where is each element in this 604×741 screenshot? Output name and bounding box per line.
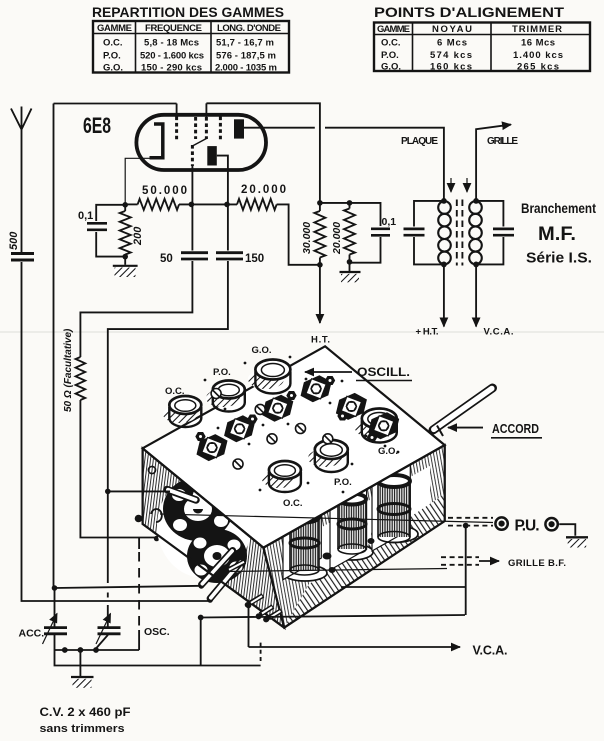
svg-text:TRIMMER: TRIMMER: [512, 24, 562, 35]
svg-text:P.U.: P.U.: [515, 518, 540, 535]
svg-text:200: 200: [132, 226, 144, 246]
svg-text:150 - 290 kcs: 150 - 290 kcs: [141, 63, 202, 74]
svg-text:51,7 - 16,7 m: 51,7 - 16,7 m: [216, 38, 274, 49]
svg-text:1.400 kcs: 1.400 kcs: [513, 50, 563, 61]
svg-text:16 Mcs: 16 Mcs: [521, 38, 555, 49]
svg-text:OSCILL.: OSCILL.: [357, 365, 410, 379]
svg-text:O.C.: O.C.: [381, 38, 401, 49]
svg-text:GAMME: GAMME: [377, 24, 410, 35]
svg-text:2.000 - 1035 m: 2.000 - 1035 m: [215, 63, 277, 74]
svg-text:C.V. 2 x 460 pF: C.V. 2 x 460 pF: [40, 707, 131, 719]
svg-text:H.T.: H.T.: [311, 335, 330, 346]
svg-text:G.O.: G.O.: [378, 446, 398, 457]
svg-text:V.C.A.: V.C.A.: [484, 327, 514, 338]
svg-text:0,1: 0,1: [78, 210, 93, 222]
svg-text:G.O.: G.O.: [381, 62, 401, 73]
svg-text:O.C.: O.C.: [103, 38, 123, 49]
svg-text:520 - 1.600 kcs: 520 - 1.600 kcs: [140, 51, 204, 62]
svg-text:OSC.: OSC.: [144, 626, 170, 638]
svg-text:sans trimmers: sans trimmers: [40, 723, 125, 735]
svg-text:ACC.: ACC.: [19, 628, 45, 640]
svg-text:V.C.A.: V.C.A.: [473, 644, 508, 658]
svg-text:PLAQUE: PLAQUE: [401, 136, 438, 147]
svg-text:GAMME: GAMME: [97, 23, 132, 34]
svg-text:ACCORD: ACCORD: [492, 422, 539, 436]
svg-text:Série I.S.: Série I.S.: [526, 250, 592, 267]
svg-text:O.C.: O.C.: [165, 386, 185, 397]
svg-text:FREQUENCE: FREQUENCE: [145, 23, 202, 34]
svg-text:6E8: 6E8: [83, 113, 111, 138]
svg-text:150: 150: [245, 253, 264, 265]
svg-text:50 Ω (Facultative): 50 Ω (Facultative): [63, 328, 74, 412]
svg-text:NOYAU: NOYAU: [432, 24, 472, 35]
svg-text:LONG. D'ONDE: LONG. D'ONDE: [217, 23, 281, 34]
svg-text:500: 500: [8, 231, 20, 250]
svg-text:0,1: 0,1: [382, 216, 397, 228]
svg-text:576 - 187,5 m: 576 - 187,5 m: [216, 51, 276, 62]
svg-text:5,8 - 18 Mcs: 5,8 - 18 Mcs: [144, 38, 199, 49]
svg-text:6 Mcs: 6 Mcs: [437, 38, 467, 49]
svg-text:REPARTITION DES GAMMES: REPARTITION DES GAMMES: [92, 5, 284, 20]
svg-text:O.C.: O.C.: [283, 498, 303, 509]
svg-text:Branchement: Branchement: [521, 201, 596, 216]
svg-text:GRILLE: GRILLE: [487, 136, 518, 147]
svg-text:P.O.: P.O.: [381, 50, 399, 61]
svg-text:50: 50: [160, 253, 173, 265]
svg-text:G.O.: G.O.: [103, 63, 123, 74]
svg-text:20.000: 20.000: [331, 222, 343, 255]
svg-text:GRILLE B.F.: GRILLE B.F.: [508, 558, 566, 569]
svg-text:P.O.: P.O.: [103, 51, 121, 62]
svg-text:+ H.T.: + H.T.: [416, 327, 439, 338]
svg-text:30.000: 30.000: [301, 222, 313, 254]
svg-text:P.O.: P.O.: [213, 367, 231, 378]
svg-text:P.O.: P.O.: [334, 477, 352, 488]
svg-text:POINTS D'ALIGNEMENT: POINTS D'ALIGNEMENT: [374, 5, 565, 20]
svg-text:M.F.: M.F.: [538, 223, 576, 245]
svg-text:G.O.: G.O.: [252, 345, 272, 356]
